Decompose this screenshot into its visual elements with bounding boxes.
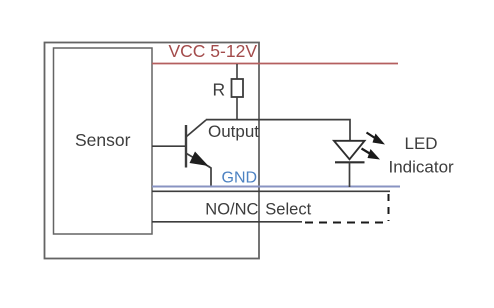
- wire LED cathode to GND: [349, 163, 351, 188]
- svg-text:Sensor: Sensor: [75, 130, 131, 150]
- transistor Q1 collector: [187, 120, 207, 137]
- svg-text:GND: GND: [222, 170, 258, 187]
- svg-text:R: R: [213, 80, 226, 100]
- LED D1 triangle: [334, 141, 365, 160]
- resistor R: [232, 79, 244, 97]
- wire resistor bottom lead: [236, 97, 238, 120]
- wire VCC rail: [152, 63, 398, 65]
- LED emission arrow 1: [367, 133, 386, 145]
- wire dashed return path bottom: [305, 222, 389, 224]
- svg-text:NO/NC: NO/NC: [205, 201, 258, 219]
- wire GND rail: [152, 186, 400, 188]
- svg-text:Output: Output: [208, 122, 259, 141]
- outer box (sensor module enclosure): [45, 43, 260, 259]
- wire NO/NC select bottom line (solid part): [152, 221, 302, 223]
- svg-text:Select: Select: [265, 201, 311, 219]
- svg-text:LED: LED: [405, 134, 438, 153]
- svg-text:VCC 5-12V: VCC 5-12V: [169, 41, 258, 61]
- sensor block: [54, 48, 153, 234]
- wire NO/NC select top line: [152, 190, 390, 192]
- wire output line to LED: [206, 120, 350, 141]
- LED emission arrow 2: [362, 149, 381, 160]
- wire emitter to GND rail: [208, 166, 211, 187]
- wire base lead from sensor: [152, 145, 186, 147]
- wire resistor top lead: [236, 64, 238, 80]
- svg-text:Indicator: Indicator: [389, 158, 455, 177]
- transistor Q1 base bar: [185, 125, 187, 168]
- LED D1 cathode bar: [335, 161, 365, 163]
- transistor Q1 emitter with arrow: [187, 154, 210, 168]
- wire dashed return path right vertical: [388, 194, 390, 221]
